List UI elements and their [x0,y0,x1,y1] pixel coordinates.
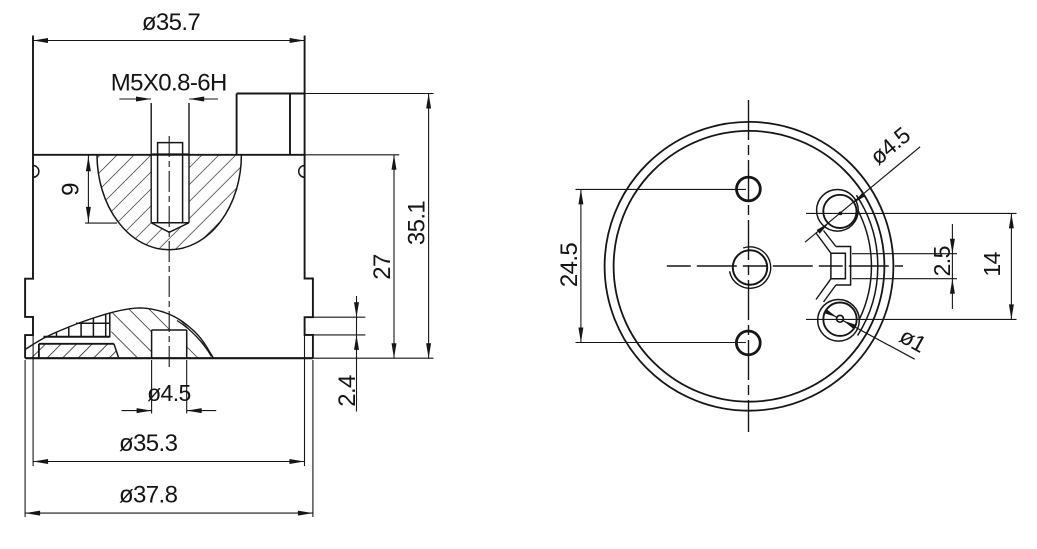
svg-text:2.4: 2.4 [334,375,361,407]
svg-text:ø35.3: ø35.3 [119,430,178,457]
svg-text:ø35.7: ø35.7 [142,9,201,36]
svg-text:35.1: 35.1 [404,201,431,246]
svg-text:ø4.5: ø4.5 [147,380,191,406]
svg-text:M5X0.8-6H: M5X0.8-6H [111,70,227,97]
svg-text:ø37.8: ø37.8 [119,482,178,509]
svg-text:27: 27 [369,254,396,280]
svg-text:2.5: 2.5 [929,246,955,276]
svg-text:14: 14 [979,251,1005,276]
svg-text:24.5: 24.5 [556,243,583,288]
svg-text:9: 9 [58,183,85,196]
